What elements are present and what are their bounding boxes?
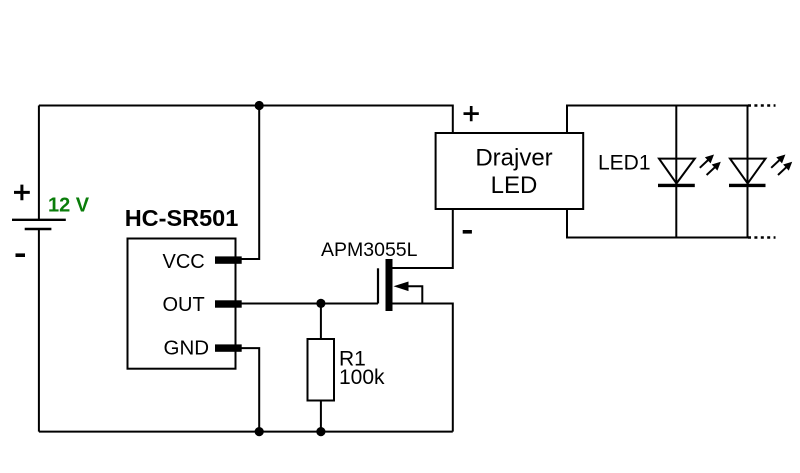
svg-text:HC-SR501: HC-SR501	[125, 205, 239, 231]
svg-text:LED1: LED1	[598, 152, 651, 175]
node B: junction dot OUT / R1	[316, 299, 325, 308]
transistor Q1: drain lead to driver minus	[393, 209, 453, 268]
LED D2: light arrow 2 head	[783, 162, 792, 171]
wire: OUT pin to MOSFET gate	[242, 303, 379, 305]
LED D1: light arrow 1 shaft	[700, 160, 708, 168]
LED panel outline (solid part)	[567, 106, 748, 238]
LED D2: vertical wire	[747, 106, 749, 238]
battery BT1 12V: long positive plate	[12, 219, 66, 221]
svg-text:Drajver: Drajver	[475, 145, 552, 172]
LED D1: triangle	[659, 159, 695, 184]
LED panel continuation dashed bottom	[748, 236, 776, 238]
wire: R1 top lead	[320, 303, 322, 339]
svg-text:OUT: OUT	[163, 294, 205, 316]
battery BT1 12V: negative lead	[38, 229, 40, 432]
pin stub VCC	[215, 256, 242, 263]
node D: junction dot R1 / bottom rail	[316, 427, 325, 436]
battery minus mark	[16, 253, 26, 257]
svg-text:LED: LED	[491, 172, 538, 199]
LED D1: cathode bar	[658, 184, 695, 187]
LED D1: light arrow 1 head	[705, 155, 714, 164]
wire: GND pin down to bottom rail	[242, 348, 260, 432]
svg-text:APM3055L: APM3055L	[321, 239, 418, 261]
LED D1: light arrow 2 head	[712, 162, 721, 171]
svg-text:100k: 100k	[339, 366, 385, 389]
node C: junction dot GND / bottom rail	[255, 427, 264, 436]
svg-text:12 V: 12 V	[48, 194, 90, 216]
transistor Q1: channel bar	[386, 259, 393, 311]
LED D2: light arrow 1 shaft	[771, 160, 779, 168]
battery BT1 12V: positive lead	[38, 106, 40, 220]
pin stub OUT	[215, 300, 242, 307]
LED D1: light arrow 2 shaft	[707, 167, 715, 175]
pin stub GND	[215, 344, 242, 351]
LED D2: triangle	[730, 159, 766, 184]
node A: junction dot top rail / VCC branch	[255, 101, 264, 110]
driver plus mark	[464, 106, 479, 121]
LED D1: vertical wire	[675, 106, 677, 238]
LED D2: light arrow 1 head	[776, 155, 785, 164]
svg-text:GND: GND	[164, 336, 210, 359]
driver minus mark	[463, 230, 472, 234]
LED D2: light arrow 2 shaft	[778, 167, 786, 175]
svg-text:VCC: VCC	[163, 251, 205, 273]
LED panel continuation dashed top	[748, 104, 776, 106]
wire: VCC branch from top rail down to VCC pin	[242, 106, 260, 260]
wire: bottom rail from battery - to MOSFET source	[39, 431, 453, 433]
transistor Q1: body-diode arrow shaft	[406, 286, 422, 303]
resistor R1 body	[308, 339, 335, 401]
transistor Q1: gate line	[377, 268, 379, 303]
transistor Q1: source lead down to bottom rail	[393, 304, 453, 432]
wire: R1 bottom lead	[320, 401, 322, 432]
HC-SR501 module body	[128, 239, 236, 369]
transistor Q1: arrow head pointing into channel	[394, 282, 409, 292]
battery BT1 12V: short negative plate	[25, 228, 52, 230]
Drajver LED driver box	[436, 133, 584, 209]
battery plus mark	[14, 185, 30, 201]
LED D2: cathode bar	[729, 184, 766, 187]
wire: top rail from battery + to driver input	[39, 106, 453, 134]
